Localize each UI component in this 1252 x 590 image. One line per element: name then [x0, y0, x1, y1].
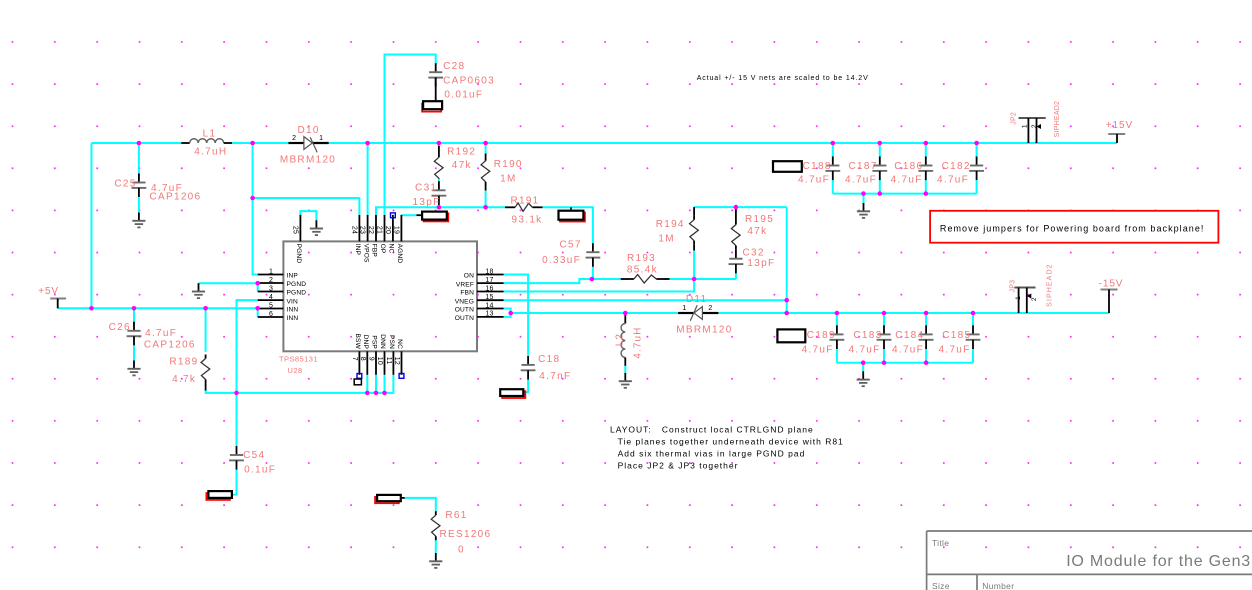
svg-text:Add six thermal vias in large: Add six thermal vias in large PGND pad [618, 448, 806, 458]
svg-text:PGND: PGND [287, 281, 307, 288]
svg-text:2: 2 [1031, 124, 1038, 128]
svg-text:R61: R61 [445, 510, 467, 521]
svg-text:4.7uF: 4.7uF [939, 344, 971, 355]
svg-text:0.01uF: 0.01uF [444, 89, 483, 100]
svg-text:L1: L1 [203, 128, 217, 139]
svg-text:2: 2 [292, 135, 296, 142]
wire L2 to ground [624, 366, 626, 373]
svg-text:Place JP2 & JP3 together: Place JP2 & JP3 together [618, 460, 739, 470]
wire OUTN -15V rail [504, 309, 1109, 317]
svg-text:C182: C182 [942, 161, 971, 172]
U28 top pins [300, 215, 401, 242]
jumper pad C18 [500, 389, 525, 398]
svg-text:MBRM120: MBRM120 [280, 155, 336, 166]
BSW pad marker [354, 379, 361, 385]
U28 pin numbers [269, 226, 494, 365]
svg-text:SIPHEAD2: SIPHEAD2 [1047, 263, 1054, 306]
svg-text:D10: D10 [297, 125, 319, 136]
op-amp U28 TPS85131 body [283, 241, 477, 351]
wire VREF node [504, 251, 736, 284]
svg-text:18: 18 [485, 268, 493, 275]
svg-text:1: 1 [319, 135, 323, 142]
U28 right pins [477, 275, 504, 317]
svg-text:9: 9 [368, 357, 375, 361]
svg-text:13pF: 13pF [747, 258, 775, 269]
capacitor C184 [895, 325, 933, 349]
jumper pad C28 [422, 101, 442, 111]
svg-text:CAP1206: CAP1206 [150, 192, 202, 203]
title block [927, 531, 1252, 590]
svg-text:C189: C189 [807, 330, 836, 341]
svg-text:1: 1 [269, 268, 273, 275]
wire ON to C18 [504, 275, 528, 393]
svg-text:0.33uF: 0.33uF [542, 255, 581, 266]
svg-text:1M: 1M [658, 234, 675, 245]
resistor R189 [169, 355, 209, 391]
svg-text:Tie planes together underneath: Tie planes together underneath device wi… [618, 436, 844, 446]
footprint box C188 [773, 161, 802, 172]
svg-text:NC: NC [388, 244, 395, 254]
svg-text:11: 11 [385, 357, 392, 365]
capacitor C188 [803, 157, 841, 181]
U28 bottom pins [359, 351, 401, 375]
svg-text:16: 16 [485, 285, 493, 292]
svg-text:PSN: PSN [388, 335, 395, 349]
svg-text:C54: C54 [243, 450, 265, 461]
svg-text:4.7uH: 4.7uH [194, 146, 227, 157]
wire VIN bottom bus [206, 300, 394, 393]
capacitor C26 [109, 322, 142, 346]
svg-text:R190: R190 [494, 159, 523, 170]
connector JP2 SIPHEAD2 [1011, 112, 1046, 143]
svg-text:VNEG: VNEG [455, 298, 474, 305]
svg-text:INN: INN [287, 315, 299, 322]
svg-text:VREF: VREF [456, 281, 474, 288]
wire C54 drop [232, 393, 237, 495]
svg-text:4.7uF: 4.7uF [845, 175, 877, 186]
wire C25 to ground [138, 197, 140, 212]
svg-text:L2: L2 [614, 333, 625, 346]
svg-text:23: 23 [359, 226, 366, 234]
svg-text:C28: C28 [443, 61, 465, 72]
svg-text:C186: C186 [894, 161, 923, 172]
svg-text:FBP: FBP [371, 244, 378, 258]
note box remove jumpers [930, 211, 1218, 243]
svg-text:1: 1 [682, 305, 686, 312]
note layout instructions [610, 425, 844, 471]
capacitor C31 [415, 181, 446, 205]
resistor R193 [621, 253, 670, 283]
svg-text:RES1206: RES1206 [440, 529, 492, 540]
resistor R190 [481, 154, 523, 191]
svg-text:PGND: PGND [287, 290, 307, 297]
svg-text:2: 2 [1031, 297, 1038, 301]
svg-text:D11: D11 [686, 294, 708, 305]
svg-text:C18: C18 [538, 354, 560, 365]
ground top cap bank [857, 203, 870, 218]
svg-text:FBN: FBN [460, 290, 474, 297]
jumper pad R191 output [559, 207, 585, 221]
svg-text:R194: R194 [656, 219, 685, 230]
wire switch node L1-D10-INP [232, 143, 359, 275]
svg-text:VIN: VIN [287, 298, 299, 305]
svg-text:3: 3 [269, 285, 273, 292]
svg-text:4.7uF: 4.7uF [145, 328, 177, 339]
connector JP3 SIPHEAD2 [1009, 280, 1038, 313]
U28 left pins [258, 275, 284, 318]
svg-text:1M: 1M [500, 174, 516, 185]
svg-text:8: 8 [359, 357, 366, 361]
resistor R192 [434, 146, 476, 179]
svg-text:4.7uF: 4.7uF [798, 175, 830, 186]
wire FBP feedback node [376, 143, 593, 243]
wire VNEG [504, 299, 787, 301]
svg-text:AGND: AGND [396, 244, 403, 264]
svg-text:1: 1 [1021, 124, 1028, 128]
wire VPOS +15V rail [329, 143, 1117, 215]
resistor R61 [431, 510, 467, 540]
svg-text:DNN: DNN [379, 334, 386, 349]
svg-text:SIPHEAD2: SIPHEAD2 [1054, 101, 1061, 138]
wire OP to C28 [385, 55, 436, 215]
svg-text:+5V: +5V [38, 286, 59, 297]
svg-text:15: 15 [485, 294, 493, 301]
svg-text:13: 13 [485, 311, 493, 318]
ground C26 [127, 361, 140, 376]
capacitor C183 [853, 325, 891, 349]
svg-text:LAYOUT: Construct local CTRL: LAYOUT: Construct local CTRLGND plane [610, 425, 814, 435]
svg-text:+15V: +15V [1106, 120, 1133, 131]
svg-text:OUTN: OUTN [455, 307, 474, 314]
footprint box C189 [777, 329, 805, 342]
svg-text:U28: U28 [288, 366, 303, 375]
capacitor C186 [894, 157, 933, 181]
svg-text:2: 2 [708, 305, 712, 312]
svg-text:4.7uF: 4.7uF [802, 344, 834, 355]
inductor L2 [614, 313, 625, 366]
svg-text:Remove jumpers for Powering bo: Remove jumpers for Powering board from b… [940, 224, 1205, 234]
svg-text:0: 0 [458, 545, 465, 556]
svg-text:2: 2 [269, 277, 273, 284]
svg-text:NC: NC [396, 339, 403, 349]
wire R194 R195 top node [694, 207, 787, 313]
svg-text:14: 14 [485, 302, 493, 309]
wire FBN [504, 279, 694, 292]
capacitor C57 [559, 239, 600, 266]
svg-text:IO Module for the Gen3: IO Module for the Gen3 [1066, 553, 1251, 570]
capacitor C18 [521, 354, 561, 380]
svg-text:C57: C57 [559, 239, 581, 250]
svg-text:4.7uF: 4.7uF [892, 344, 924, 355]
power +15V [1106, 120, 1133, 143]
ground bottom cap bank [857, 371, 870, 386]
svg-text:INN: INN [287, 307, 299, 314]
svg-text:20: 20 [384, 226, 391, 234]
inductor L1 [181, 128, 232, 143]
svg-text:TPS85131: TPS85131 [279, 354, 318, 363]
ground PGND pin 25 [310, 220, 323, 235]
svg-text:6: 6 [269, 311, 273, 318]
resistor R194 [656, 207, 699, 250]
ground C25 [132, 213, 145, 228]
svg-text:24: 24 [351, 226, 358, 234]
capacitor C182 [942, 157, 984, 181]
svg-text:19: 19 [393, 226, 400, 234]
jumper pad R61 link [375, 495, 405, 503]
ground R61 [429, 553, 442, 568]
svg-text:Size: Size [932, 581, 950, 590]
wire top cap bank ground bus [833, 180, 977, 203]
svg-text:C187: C187 [849, 161, 878, 172]
svg-text:4.7uF: 4.7uF [849, 344, 881, 355]
wire bottom cap bank [837, 313, 973, 371]
svg-text:MBRM120: MBRM120 [676, 324, 732, 335]
svg-text:-15V: -15V [1099, 279, 1124, 290]
svg-text:10: 10 [376, 357, 383, 365]
capacitor C25 [114, 174, 146, 198]
svg-text:C184: C184 [895, 330, 924, 341]
wire R61 link [405, 498, 436, 553]
svg-text:4.7uF: 4.7uF [891, 175, 923, 186]
svg-text:4.7uF: 4.7uF [937, 175, 969, 186]
svg-text:R192: R192 [447, 147, 476, 158]
svg-text:47k: 47k [747, 226, 767, 237]
wire AGND to jumper [401, 214, 416, 216]
svg-text:47k: 47k [452, 160, 472, 171]
svg-text:C183: C183 [853, 330, 882, 341]
svg-text:C185: C185 [942, 330, 971, 341]
svg-text:OUTN: OUTN [455, 315, 474, 322]
svg-text:DNP: DNP [362, 335, 369, 350]
wire PGND pin 25 [300, 211, 316, 220]
svg-text:R195: R195 [745, 214, 774, 225]
svg-text:R189: R189 [169, 356, 198, 367]
svg-text:4.7nF: 4.7nF [539, 371, 571, 382]
jumper pad C54 [206, 491, 232, 500]
svg-text:C31: C31 [415, 183, 437, 194]
svg-text:BSW: BSW [354, 334, 361, 350]
svg-text:OP: OP [379, 244, 386, 254]
svg-text:4.7uH: 4.7uH [633, 327, 644, 359]
svg-text:4.7k: 4.7k [172, 374, 196, 385]
wire C26 to ground [133, 346, 135, 361]
svg-text:INP: INP [354, 244, 361, 256]
ground L2 [619, 373, 632, 388]
jumper pad AGND [417, 212, 449, 222]
svg-text:R193: R193 [627, 253, 656, 264]
ground PGND pins 2 3 [192, 283, 205, 298]
svg-text:JP2: JP2 [1011, 112, 1018, 125]
svg-text:5: 5 [269, 302, 273, 309]
resistor R191 [505, 195, 543, 211]
diode D10 MBRM120 [288, 125, 328, 153]
svg-text:C25: C25 [114, 178, 136, 189]
capacitor C189 [807, 325, 845, 349]
svg-text:22: 22 [367, 226, 374, 234]
svg-text:C188: C188 [803, 161, 832, 172]
svg-text:C26: C26 [109, 322, 131, 333]
svg-text:CAP0603: CAP0603 [443, 76, 495, 87]
diode D11 MBRM120 [678, 294, 718, 321]
svg-text:C32: C32 [743, 248, 765, 259]
svg-text:Title: Title [932, 538, 949, 548]
wire PGND pins 2 3 [199, 283, 258, 291]
svg-text:PSP: PSP [371, 335, 378, 349]
U28 pin names [287, 244, 475, 350]
power +5V [38, 286, 66, 308]
svg-text:13pF: 13pF [413, 197, 441, 208]
svg-text:Number: Number [982, 581, 1014, 590]
svg-text:R191: R191 [510, 195, 539, 206]
svg-text:JP3: JP3 [1009, 280, 1016, 293]
svg-text:Actual +/- 15 V nets are scale: Actual +/- 15 V nets are scaled to be 14… [697, 75, 869, 82]
svg-text:17: 17 [485, 277, 493, 284]
svg-text:INP: INP [287, 273, 299, 280]
power -15V [1099, 279, 1124, 313]
svg-text:93.1k: 93.1k [512, 215, 543, 226]
svg-text:85.4k: 85.4k [627, 265, 658, 276]
resistor R195 [731, 207, 774, 250]
capacitor C54 [229, 446, 265, 470]
capacitor C28 [428, 61, 465, 101]
svg-text:12: 12 [393, 357, 400, 365]
svg-text:CAP1206: CAP1206 [144, 340, 196, 351]
svg-text:ON: ON [464, 273, 474, 280]
svg-text:1: 1 [1015, 296, 1022, 300]
capacitor C185 [942, 325, 980, 349]
svg-text:25: 25 [292, 226, 299, 234]
capacitor C32 [729, 248, 765, 274]
U28 no-connect markers [357, 213, 404, 378]
svg-text:PGND: PGND [295, 244, 302, 264]
capacitor C187 [849, 157, 888, 181]
wire +5V rail [58, 143, 258, 352]
svg-text:4: 4 [269, 294, 273, 301]
svg-text:0.1uF: 0.1uF [244, 465, 276, 476]
svg-text:7: 7 [351, 357, 358, 361]
svg-text:VPOS: VPOS [362, 244, 369, 263]
svg-text:21: 21 [376, 226, 383, 234]
